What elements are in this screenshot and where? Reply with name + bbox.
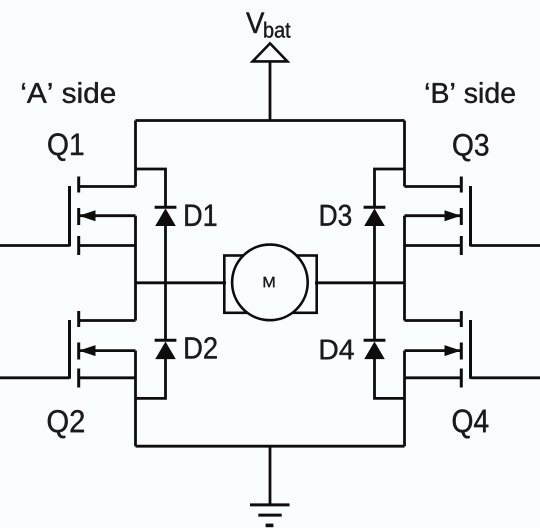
- label D1: [185, 205, 216, 226]
- wire: D4 anode link: [375, 358, 405, 398]
- diode D2: [155, 340, 177, 359]
- wire: Q2 source to ground rail: [134, 378, 137, 446]
- wire: Q3 drain riser: [403, 121, 406, 187]
- wire: Q1 drain riser: [134, 121, 137, 187]
- label 'A' side: [22, 82, 115, 103]
- wire: Q3 gate lead: [471, 244, 540, 247]
- label Q2: [48, 410, 84, 438]
- label 'B' side: [426, 82, 515, 103]
- wire: motor lead right (node B): [315, 281, 405, 284]
- ground symbol: [250, 446, 290, 525]
- wire: D3 cathode branch: [375, 169, 405, 208]
- label D3: [321, 205, 351, 226]
- wire: V_bat rail (top): [136, 119, 405, 122]
- transistor Q4: [405, 311, 471, 388]
- diode D3: [364, 207, 386, 226]
- wire: node B vertical (Q3 source to Q4 drain): [403, 246, 406, 321]
- wire: Q4 gate lead: [471, 376, 540, 379]
- wire: node A vertical (Q1 source to Q2 drain): [134, 246, 137, 321]
- diode D1: [155, 207, 177, 226]
- transistor Q1: [70, 177, 136, 256]
- wire: D1 anode to D2 cathode (node A): [164, 225, 167, 340]
- transistor Q2: [70, 311, 136, 388]
- label Q1: [48, 133, 83, 161]
- diode D4: [364, 340, 386, 359]
- power symbol V_bat (arrow): [253, 43, 288, 61]
- motor M: [224, 245, 316, 321]
- wire: ground rail (bottom): [136, 445, 405, 448]
- wire: Q1 gate lead: [0, 244, 70, 247]
- label M (motor): [264, 277, 275, 287]
- wire: V_bat stem: [269, 61, 272, 121]
- label Q4: [453, 409, 489, 438]
- transistor Q3: [405, 177, 471, 256]
- wire: D1 cathode branch: [136, 169, 166, 208]
- wire: D2 anode link: [136, 358, 166, 398]
- wire: Q2 gate lead: [0, 376, 70, 379]
- wire: Q4 source to ground rail: [403, 378, 406, 446]
- label D2: [185, 337, 216, 358]
- label V_bat: [246, 13, 290, 38]
- label Q3: [453, 134, 488, 161]
- wire: motor lead left (node A): [136, 281, 227, 284]
- label D4: [321, 340, 354, 360]
- wire: D3 anode to D4 cathode (node B): [373, 225, 376, 340]
